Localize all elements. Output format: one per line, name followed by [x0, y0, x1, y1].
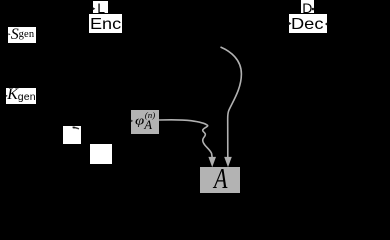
box A (adversary) [200, 167, 240, 193]
black tick on Dec box left edge [289, 22, 292, 26]
arrowhead into A (left) [208, 157, 216, 167]
box phi_A^(n) [131, 110, 159, 135]
black tick on phi box left edge [131, 120, 133, 123]
box K_gen [6, 88, 37, 104]
box Dec [289, 14, 328, 33]
black tick on Dec box right edge [325, 22, 328, 26]
empty box 2 [90, 144, 111, 164]
black tick on S_gen box left edge [9, 33, 11, 35]
black mark on top of empty box 1 [73, 127, 79, 129]
arrow from Enc area curving down into A (right curve) [221, 47, 242, 158]
black tick on K_gen box left edge [6, 95, 8, 97]
box S_gen [8, 27, 35, 43]
box D [301, 0, 314, 13]
black tick on L box left edge [93, 7, 95, 10]
arrowhead into A (right) [224, 157, 232, 167]
empty box 1 [63, 126, 82, 145]
wavy arrow from phi box into A (left) [159, 120, 213, 158]
black tick on D box right edge [312, 8, 314, 10]
box Enc [89, 14, 122, 33]
box L [93, 1, 108, 13]
